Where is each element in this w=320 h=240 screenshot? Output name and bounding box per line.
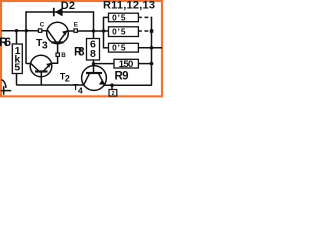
wire R6 top lead <box>16 31 18 44</box>
terminal 2 box <box>109 90 117 97</box>
svg-text:E: E <box>74 22 78 29</box>
resistor R12 box 0'5 <box>109 26 139 36</box>
label B <box>61 52 66 59</box>
svg-text:4: 4 <box>78 85 83 95</box>
svg-text:D2: D2 <box>61 0 75 12</box>
wire stub down to terminal 2 <box>111 85 113 89</box>
svg-text:R6: R6 <box>0 37 11 49</box>
wire R13 right solid lead to border <box>138 47 162 49</box>
diode D2 <box>54 8 63 17</box>
node junction dot on main wire at R6 <box>15 29 18 32</box>
wire from T4 base node to R9 <box>94 63 115 65</box>
wire arc entering from left border at bottom (cropped component) <box>2 80 7 89</box>
node square dot R12 row <box>150 29 154 33</box>
svg-text:0'5: 0'5 <box>112 43 126 53</box>
svg-text:0'5: 0'5 <box>112 12 126 22</box>
svg-text:R9: R9 <box>115 70 129 82</box>
wire R8 bottom lead into T4 base <box>93 60 95 73</box>
node dot R13 row <box>150 46 154 50</box>
resistor R8 box with value 68 <box>87 38 100 60</box>
label R6 <box>0 37 11 49</box>
svg-text:C: C <box>40 22 45 29</box>
transistor T3 (NPN, base down, collector left, emitter right) <box>47 22 69 44</box>
svg-text:5: 5 <box>14 62 20 74</box>
node junction dot at E wire and x=93.5 <box>92 29 95 32</box>
border frame <box>1 1 162 96</box>
wire T3 emitter to E node and R12 lead <box>67 30 109 32</box>
node junction dot bus/E wire <box>102 29 105 32</box>
svg-text:2: 2 <box>112 91 115 97</box>
wire right bus x=151.5 from R11 row down to bottom rail <box>104 17 151 85</box>
wire R6 bottom lead and bottom rail to T4 collector <box>17 74 85 86</box>
resistor R13 box 0'5 <box>109 43 139 53</box>
plus sign marker bottom left <box>1 86 11 95</box>
wire vertical bus x=26 down to T2 collector <box>26 11 31 63</box>
label T3 <box>36 37 48 52</box>
wire R9 right lead <box>138 63 151 65</box>
label R8 <box>74 47 85 59</box>
node dot R9 row <box>150 62 154 66</box>
svg-text:150: 150 <box>119 59 134 70</box>
svg-text:R11,12,13: R11,12,13 <box>103 0 155 12</box>
svg-text:R8: R8 <box>74 47 85 59</box>
wire main horizontal collector wire y=30.7 from left border to T3 <box>2 30 49 32</box>
label C <box>40 22 45 29</box>
wire vertical x=93.5 from top rail to R8 <box>93 11 95 38</box>
wire T3 base lead down to B and T2 emitter <box>52 44 58 63</box>
label D2 <box>61 0 75 12</box>
svg-text:2: 2 <box>65 74 70 84</box>
svg-text:B: B <box>61 52 66 59</box>
label T2 <box>60 71 70 83</box>
wire right bus top corner stub <box>151 16 153 18</box>
terminal B square <box>56 53 59 56</box>
node junction dot on main wire at x=26 bus <box>25 29 28 32</box>
node dot output terminal on bottom rail <box>110 83 114 87</box>
wire R11 right dashed lead <box>138 16 148 18</box>
label R9 <box>115 70 129 82</box>
wire lead to R11 <box>103 16 109 18</box>
resistor R6 box with value 1k5 <box>12 44 22 74</box>
wire T2 base lead <box>40 72 42 85</box>
label R11,12,13 <box>103 0 155 12</box>
label T4 <box>73 82 83 95</box>
svg-text:8: 8 <box>90 48 96 60</box>
wire lead to R13 <box>103 47 109 49</box>
wire R12 right dashed lead <box>138 30 148 32</box>
resistor R11 box 0'5 <box>109 12 139 22</box>
label E <box>74 22 78 29</box>
svg-text:3: 3 <box>42 40 48 52</box>
svg-text:0'5: 0'5 <box>112 26 126 36</box>
terminal C square <box>38 29 41 32</box>
terminal E square <box>74 29 77 32</box>
resistor R9 box 150 <box>114 59 138 70</box>
transistor T2 (NPN, base down, collector left-up, emitter right-up with arrow) <box>30 55 52 77</box>
transistor T4 (NPN, base up, collector left, emitter right with arrow) <box>82 66 107 91</box>
node junction dot at R8/R9/T4 base <box>92 62 95 65</box>
wire ladder left bus x=103.5 <box>103 17 105 47</box>
wire top rail from collector node to D2 to emitter node <box>26 11 94 13</box>
